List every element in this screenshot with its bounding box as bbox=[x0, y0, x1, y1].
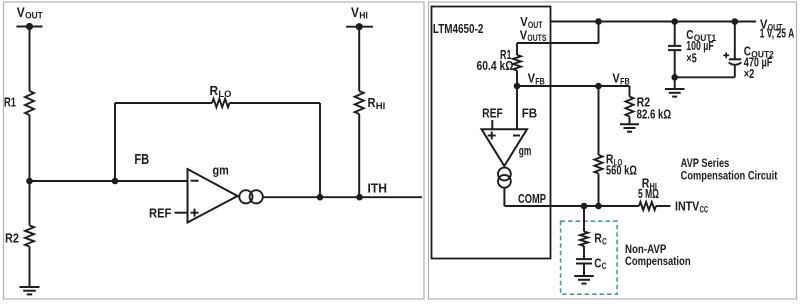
node COUT1 bottom junction bbox=[671, 74, 678, 81]
svg-text:OUT: OUT bbox=[528, 20, 543, 30]
node VOUT label bbox=[17, 4, 43, 21]
wire VOUTS bbox=[517, 22, 599, 44]
svg-text:AVP Series: AVP Series bbox=[681, 158, 730, 170]
svg-text:×2: ×2 bbox=[744, 66, 755, 81]
resistor R1 bbox=[25, 91, 34, 115]
current source circles bbox=[498, 168, 511, 188]
svg-text:LTM4650-2: LTM4650-2 bbox=[433, 21, 484, 36]
svg-text:FB: FB bbox=[134, 152, 149, 168]
node VOUTS junction bbox=[595, 18, 602, 25]
resistor RLO 560k bbox=[595, 155, 603, 174]
svg-text:R2: R2 bbox=[5, 231, 19, 246]
wire VFB line bbox=[517, 85, 630, 87]
current source output circles bbox=[238, 190, 263, 203]
label Non-AVP Compensation bbox=[625, 244, 691, 268]
wire RLO loop left vertical bbox=[114, 103, 116, 181]
wire RLO loop top left bbox=[115, 102, 212, 104]
wire R1 to FB node bbox=[29, 115, 31, 181]
node RLO loop junction dot bbox=[112, 178, 119, 185]
wire VOUT rail bbox=[551, 21, 757, 23]
svg-text:1 V, 25 A: 1 V, 25 A bbox=[760, 26, 795, 41]
svg-text:V: V bbox=[520, 27, 528, 42]
svg-text:OUTS: OUTS bbox=[527, 33, 546, 43]
svg-text:60.4 kΩ: 60.4 kΩ bbox=[477, 58, 514, 73]
svg-text:Non-AVP: Non-AVP bbox=[625, 244, 667, 256]
wire RLO to COMP bbox=[598, 174, 600, 207]
svg-text:HI: HI bbox=[376, 101, 386, 111]
op-amp gm right bbox=[482, 129, 528, 166]
capacitor CC bbox=[576, 259, 592, 263]
opamp plus sign bbox=[191, 209, 199, 217]
ground below COUT1 bbox=[665, 89, 685, 97]
left panel frame bbox=[4, 2, 425, 299]
label RC bbox=[594, 231, 607, 247]
wire VOUT to R1 bbox=[29, 27, 31, 92]
svg-text:OUT: OUT bbox=[25, 11, 43, 21]
node VHI label bbox=[351, 4, 368, 21]
wire COMP to RC bbox=[583, 206, 585, 232]
wire COUT2 bottom to COUT1 bbox=[675, 76, 735, 78]
node VFB junction bbox=[514, 83, 521, 90]
wire ITH line bbox=[263, 196, 422, 198]
ground below R2 bbox=[20, 287, 40, 294]
svg-text:C: C bbox=[602, 261, 607, 271]
wire VFB corner to R2 bbox=[629, 86, 631, 97]
svg-text:Compensation Circuit: Compensation Circuit bbox=[681, 170, 778, 182]
svg-text:gm: gm bbox=[213, 163, 229, 178]
wire REF stub bbox=[175, 212, 188, 214]
svg-text:R: R bbox=[210, 83, 219, 98]
node COMP-RC junction bbox=[581, 203, 588, 210]
resistor RC bbox=[580, 232, 588, 247]
node VOUT terminal bar bbox=[17, 23, 43, 30]
svg-text:REF: REF bbox=[149, 205, 171, 220]
node VHI terminal bar bbox=[346, 23, 373, 30]
wire VHI to RHI bbox=[358, 27, 360, 91]
wire RHI to INTVCC bbox=[656, 205, 671, 207]
svg-text:FB: FB bbox=[522, 105, 538, 120]
svg-text:V: V bbox=[528, 71, 536, 86]
node COMP-RLO junction bbox=[595, 203, 602, 210]
dashed box Non-AVP bbox=[561, 221, 618, 294]
node VOUT output label bbox=[760, 17, 783, 33]
resistor RLO bbox=[212, 99, 230, 107]
opamp minus sign bbox=[191, 180, 199, 182]
wire RLO loop top right bbox=[230, 102, 321, 104]
label INTVCC bbox=[675, 199, 709, 215]
svg-text:5 MΩ: 5 MΩ bbox=[638, 186, 659, 201]
capacitor COUT1 bbox=[668, 22, 681, 78]
svg-text:R: R bbox=[368, 95, 377, 110]
resistor R1 60.4k bbox=[513, 55, 521, 71]
node RHI-ITH junction bbox=[356, 194, 363, 201]
plus polarity mark bbox=[723, 52, 729, 58]
svg-text:V: V bbox=[17, 4, 26, 20]
label RHI bbox=[642, 176, 657, 192]
resistor R2 bbox=[25, 226, 34, 247]
wire VOUTS to R1 bbox=[516, 43, 518, 55]
wire FB to opamp bbox=[516, 86, 518, 129]
svg-text:R1: R1 bbox=[4, 95, 16, 110]
wire R2 to ground bbox=[29, 247, 31, 288]
node RLO-ITH junction bbox=[317, 194, 324, 201]
label RLO bbox=[606, 151, 622, 167]
resistor R2 82.6k bbox=[626, 97, 634, 117]
wire COUT1 to ground bbox=[674, 77, 676, 89]
node VFB-RLO junction bbox=[595, 83, 602, 90]
wire R2 to ground bbox=[629, 117, 631, 125]
svg-text:ITH: ITH bbox=[368, 181, 388, 196]
label RHI bbox=[368, 95, 386, 111]
pin VOUTS label bbox=[520, 27, 547, 43]
svg-text:CC: CC bbox=[700, 205, 709, 215]
svg-text:INTV: INTV bbox=[675, 199, 700, 214]
opamp minus sign bbox=[513, 135, 520, 137]
svg-text:LO: LO bbox=[218, 89, 231, 99]
resistor RHI bbox=[355, 91, 364, 114]
wire opamp to COMP bbox=[504, 188, 639, 206]
node COUT1 top junction bbox=[671, 18, 678, 25]
svg-text:COMP: COMP bbox=[518, 191, 546, 206]
wire R1 to VFB node bbox=[516, 71, 518, 87]
svg-text:HI: HI bbox=[359, 11, 368, 21]
wire RHI to ITH bbox=[358, 114, 360, 197]
pin VFB label bbox=[528, 71, 546, 87]
node COUT2 top junction bbox=[732, 18, 739, 25]
svg-text:V: V bbox=[612, 70, 620, 85]
svg-text:Compensation: Compensation bbox=[625, 256, 691, 268]
ground below R2 bbox=[620, 124, 639, 131]
resistor RHI 5M bbox=[639, 202, 656, 210]
svg-text:560 kΩ: 560 kΩ bbox=[606, 163, 637, 178]
svg-text:C: C bbox=[602, 236, 607, 246]
svg-text:82.6 kΩ: 82.6 kΩ bbox=[637, 106, 672, 121]
wire FB node to R2 bbox=[29, 181, 31, 226]
svg-text:FB: FB bbox=[620, 76, 630, 86]
wire RC to CC bbox=[583, 246, 585, 259]
wire CC to ground bbox=[583, 264, 585, 277]
capacitor COUT2 polarized bbox=[729, 22, 742, 78]
svg-text:gm: gm bbox=[519, 143, 532, 158]
svg-text:×5: ×5 bbox=[686, 51, 697, 66]
right panel frame bbox=[429, 2, 797, 299]
node FB junction left bbox=[26, 178, 33, 185]
svg-text:FB: FB bbox=[535, 77, 545, 87]
label AVP Series Compensation Circuit bbox=[681, 158, 778, 182]
svg-text:REF: REF bbox=[482, 105, 503, 120]
pin VOUT label bbox=[520, 14, 543, 30]
label COUT2 bbox=[744, 44, 774, 60]
label RLO bbox=[210, 83, 232, 99]
svg-text:V: V bbox=[351, 4, 360, 20]
label COUT1 bbox=[686, 27, 716, 43]
wire RLO vertical bbox=[598, 86, 600, 155]
opamp plus sign bbox=[488, 132, 496, 140]
label VFB at R2 bbox=[612, 70, 630, 86]
wire REF stub bbox=[491, 120, 493, 129]
wire RLO loop right vertical bbox=[319, 103, 321, 197]
block LTM4650-2 outline bbox=[432, 7, 551, 259]
wire FB node to opamp bbox=[30, 180, 188, 182]
ground below CC bbox=[574, 276, 594, 284]
op-amp gm left bbox=[188, 169, 238, 223]
label CC bbox=[594, 255, 607, 271]
